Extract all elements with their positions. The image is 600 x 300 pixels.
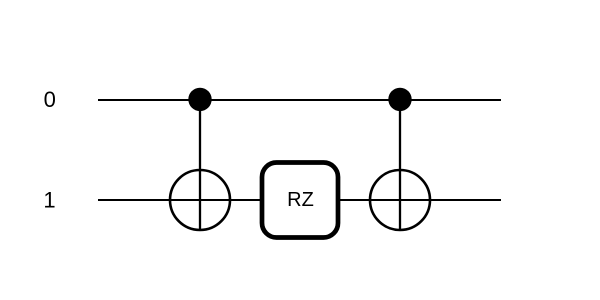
target circle CNOT2: [370, 170, 430, 230]
wire q0: [98, 99, 501, 101]
svg-text:0: 0: [44, 87, 56, 112]
target circle CNOT1: [170, 170, 230, 230]
svg-text:1: 1: [43, 187, 55, 212]
gate box RZ: [262, 163, 338, 238]
wire CNOT1 vertical: [199, 100, 201, 231]
svg-text:RZ: RZ: [287, 189, 314, 211]
wire CNOT2 vertical: [399, 100, 401, 231]
wire q1: [98, 199, 501, 201]
control dot CNOT2: [388, 88, 411, 111]
control dot CNOT1: [188, 88, 211, 111]
